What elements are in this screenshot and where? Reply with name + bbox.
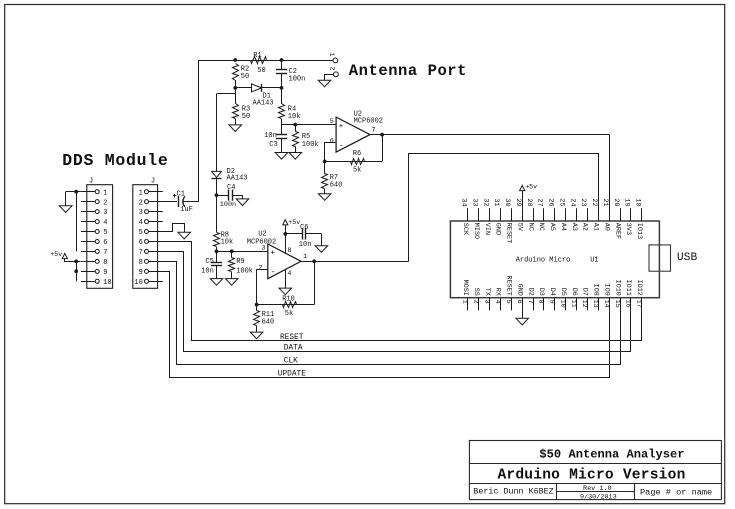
svg-text:IO12: IO12 [635,280,643,296]
wire U2B out to Arduino A1 [409,154,599,262]
resistor R2 ref label [241,65,249,73]
svg-text:3: 3 [482,300,490,304]
U1 bottom pin 17 (IO12) [635,280,644,311]
C2 value label [289,76,306,84]
connector J1 pin 5 [81,229,108,237]
svg-text:+: + [271,250,276,258]
wire net CLK from J2 pin8 [163,262,621,365]
svg-text:27: 27 [536,198,544,206]
antenna port pin 2 circle [334,72,339,77]
ground below U2B [279,288,292,295]
USB connector body [649,245,671,271]
wire U2A feedback down [382,135,384,162]
svg-text:IO8: IO8 [592,284,600,296]
svg-text:D4: D4 [548,288,556,296]
svg-text:10k: 10k [288,113,301,121]
U1 top pin 34 (SCK) [460,198,469,236]
svg-text:2: 2 [103,199,107,207]
D1 value label [253,100,274,108]
D1 ref label [263,93,271,101]
capacitor C3 [276,125,287,153]
junction D2-C4 [215,193,219,197]
svg-text:1: 1 [139,189,143,197]
connector J2 pin 1 [139,189,163,197]
connector J1 pin 4 [81,219,108,227]
junction R10-R11-pin2 [255,303,259,307]
svg-text:5: 5 [504,300,512,304]
svg-text:VIN: VIN [483,223,491,235]
connector J2 pin 9 [139,269,163,277]
svg-text:29: 29 [514,198,522,206]
svg-text:6: 6 [139,239,143,247]
svg-text:A1: A1 [592,223,600,231]
net label UPDATE [278,371,306,379]
svg-text:R1: R1 [253,52,261,60]
U1 bottom pin 5 (RESET) [504,275,513,310]
U1 top pin 26 (A5) [547,198,556,231]
svg-text:17: 17 [635,300,643,308]
svg-text:-: - [271,267,276,277]
svg-text:13: 13 [591,300,599,308]
svg-text:IO9: IO9 [602,284,610,296]
svg-text:50: 50 [257,67,265,75]
U1 top pin 30 (RESET) [503,198,512,243]
net label CLK [284,358,298,366]
ground below R9 [225,279,238,286]
svg-text:18: 18 [634,198,642,206]
svg-text:MISO: MISO [472,223,480,239]
wire C4 to ground [242,195,244,199]
wire C6 to ground [321,234,323,246]
ground below R5 [289,153,302,160]
D2 ref label [227,168,235,176]
U1 top pin 25 (A4) [557,198,566,231]
wire net RESET from J2 pin6 [163,242,642,341]
wire D2 branch jog [217,93,236,95]
wire net UPDATE from J2 pin9 [163,272,610,378]
DDS Module title [62,151,168,170]
resistor R10 value label [285,310,293,318]
svg-text:RX: RX [494,288,502,296]
wire J1 gnd bus pin1-pin7 [76,192,78,252]
svg-text:Rev 1.0: Rev 1.0 [583,485,612,493]
svg-text:-: - [339,141,344,151]
antenna port pin 2 number [329,67,336,71]
svg-text:5k: 5k [285,310,293,318]
svg-text:DATA: DATA [284,345,303,353]
svg-text:D5: D5 [559,288,567,296]
connector J2 pin 8 [139,259,163,267]
junction J1 pin1 gnd bus [74,190,78,194]
junction R9 tap [230,249,234,253]
svg-text:10: 10 [558,300,566,308]
wire top rail node A [199,60,333,62]
svg-text:TX: TX [483,288,491,296]
junction U2A out feedback [380,133,384,137]
junction R1-C2 [280,58,284,62]
resistor R8 [214,233,220,252]
junction D1-C2-R4 [280,86,284,90]
+5v symbol at U2B [283,220,288,225]
+5v symbol at U2B label [288,219,300,226]
svg-text:100k: 100k [302,141,319,149]
svg-text:2: 2 [471,300,479,304]
svg-text:8: 8 [287,247,291,255]
connector J2 pin 6 [139,239,163,247]
U1 bottom pin 8 (D3) [537,288,546,311]
ground below U1 [516,318,529,325]
wire feedback to U2B -in [257,270,268,305]
svg-text:31: 31 [492,198,500,206]
svg-text:640: 640 [330,181,343,189]
junction R5 tap [293,123,297,127]
U1 top pin 21 (A0) [601,198,610,231]
svg-text:7: 7 [103,249,107,257]
svg-text:+5v: +5v [525,183,537,190]
svg-text:2: 2 [139,199,143,207]
resistor R1 [251,57,267,64]
svg-text:640: 640 [262,318,275,326]
svg-text:GND: GND [494,223,502,235]
svg-text:Antenna Port: Antenna Port [349,62,467,80]
U1 bottom pin 11 (D6) [569,288,578,311]
svg-text:SCK: SCK [461,223,469,236]
resistor R6 ref label [353,150,361,158]
resistor R9 value label [236,267,253,275]
resistor R8 value label [221,239,234,247]
svg-text:C1: C1 [177,190,185,198]
svg-text:AREF: AREF [613,223,621,239]
svg-text:Beric Dunn K6BEZ: Beric Dunn K6BEZ [473,487,553,497]
wire U2B output [301,261,409,263]
resistor R6 value label [353,167,361,175]
author text [473,487,553,497]
resistor R7 ref label [330,174,338,182]
resistor R3 value label [242,113,250,121]
U1 top pin 24 (A3) [568,198,577,231]
C2 ref label [289,68,297,76]
C3 ref label [269,141,277,149]
svg-text:U2: U2 [258,230,266,238]
junction V+ to C6 [283,232,287,236]
svg-text:MCP6002: MCP6002 [354,118,383,126]
C1 ref label [177,190,185,198]
D2 value label [227,175,248,183]
capacitor C6 [285,228,321,239]
svg-text:MOSI: MOSI [461,280,469,296]
svg-text:10n: 10n [299,241,312,249]
U1 ref label [590,256,598,264]
rev text [583,485,612,493]
connector J1 pin 7 [81,249,108,257]
connector J2 ref label [151,178,155,186]
svg-text:A3: A3 [570,223,578,231]
connector J2 pin 4 [139,219,163,227]
svg-text:C3: C3 [269,141,277,149]
svg-text:3: 3 [139,209,143,217]
title text [539,447,684,461]
U1 top pin 18 (IO13) [634,198,643,239]
U1 top pin 19 (3V3) [623,198,632,235]
connector J2 pin 3 [139,209,163,217]
svg-text:UPDATE: UPDATE [278,371,306,379]
U1 bottom pin 15 (IO10) [613,280,622,311]
svg-text:A5: A5 [548,223,556,231]
svg-text:+: + [339,123,344,131]
U2B pin 8 number [287,247,291,255]
U1 bottom pin 12 (D7) [580,288,589,311]
resistor R2 value label [241,73,249,81]
+5v symbol at U1 label [525,183,537,190]
svg-text:6: 6 [330,137,334,145]
svg-text:5: 5 [330,118,334,126]
svg-text:IO13: IO13 [635,223,643,239]
svg-text:21: 21 [601,198,609,206]
U1 bottom pin 10 (D5) [558,288,567,311]
svg-text:33: 33 [470,198,478,206]
ground below R7 [318,194,331,201]
svg-text:RESET: RESET [505,223,513,243]
junction U2B out feedback [312,259,316,263]
svg-text:5: 5 [103,229,107,237]
U1 top pin 23 (A2) [579,198,588,231]
connector J2 pin 10 [134,279,162,287]
Antenna Port title [349,62,467,80]
svg-text:A0: A0 [602,223,610,231]
resistor R9 ref label [236,258,244,266]
ground below C3 [275,153,288,160]
junction R1-R2 [233,58,237,62]
svg-text:+5v: +5v [288,219,300,226]
U1 top pin 28 (NC) [525,198,534,231]
resistor R11 ref label [262,311,275,319]
svg-text:6: 6 [103,239,107,247]
wire feedback to U2A -in [325,143,337,162]
svg-text:R6: R6 [353,150,361,158]
wire D2 branch vertical [216,94,218,171]
svg-text:3V3: 3V3 [624,223,632,235]
U2A pin 6 number [330,137,334,145]
net label DATA [284,345,303,353]
svg-text:Page # or name: Page # or name [640,488,712,498]
U1 top pin 32 (VIN) [481,198,490,235]
capacitor C1 (polarized) [163,194,199,207]
connector J1 body [87,185,113,289]
U1 bottom pin 6 (GND) [515,284,524,311]
svg-text:10k: 10k [221,239,234,247]
connector J1 pin 1 [81,189,108,197]
svg-text:20: 20 [612,198,620,206]
resistor R1 ref label [253,52,261,60]
U2A ref label [354,111,362,119]
capacitor C2 [276,60,287,88]
svg-text:10: 10 [103,279,111,287]
junction R8-C5 [215,249,219,253]
+5v symbol at U1 [520,185,525,190]
junction R2-D1-R3 [233,86,237,90]
page text [640,488,712,498]
svg-text:50: 50 [242,113,250,121]
svg-text:$50 Antenna Analyser: $50 Antenna Analyser [539,447,684,461]
svg-text:A2: A2 [581,223,589,231]
svg-text:32: 32 [481,198,489,206]
C4 ref label [227,184,235,192]
svg-text:10n: 10n [264,132,277,140]
svg-text:7: 7 [139,249,143,257]
ground right of C4 [236,199,249,206]
wire J2 pin2 to C1 [163,201,177,203]
svg-text:16: 16 [624,300,632,308]
svg-text:100n: 100n [289,76,306,84]
resistor R10 ref label [282,296,295,304]
svg-text:15: 15 [613,300,621,308]
svg-text:28: 28 [525,198,533,206]
svg-text:6: 6 [515,300,523,304]
svg-text:9: 9 [139,269,143,277]
svg-text:AA143: AA143 [253,100,274,108]
svg-text:J: J [89,178,93,186]
U1 bottom pin 13 (IO8) [591,284,600,311]
wire U2B feedback down [314,261,316,304]
wire R8 to U2B +in [217,251,269,253]
svg-text:14: 14 [602,300,610,308]
U1 bottom pin 14 (IO9) [602,284,611,311]
C5 value label [201,267,214,275]
U1 bottom pin 7 (D2) [526,288,535,311]
USB label [677,252,698,264]
U1 top pin 20 (AREF) [612,198,621,239]
wire R4 to op-amp U2A +in [282,124,337,126]
svg-text:7: 7 [526,300,534,304]
svg-text:DDS Module: DDS Module [62,151,168,170]
U2B pin 3 number [261,245,265,253]
svg-text:IO10: IO10 [613,280,621,296]
date text [580,494,617,502]
svg-text:22: 22 [590,198,598,206]
svg-text:100n: 100n [220,201,236,209]
U2B pin 1 number [303,253,307,261]
diode D2 [212,171,222,178]
resistor R7 value label [330,181,343,189]
capacitor C4 [217,190,243,201]
connector J1 ref label [89,178,93,186]
junction +5v pin9 [74,269,78,273]
C3 value label [264,132,277,140]
U1 name label [516,256,571,264]
wire U2B V+ pin 8 [285,225,287,253]
ground below C6 [315,246,328,253]
resistor R3 [233,88,239,125]
wire +5v bus pin8-pin10 [76,261,78,281]
wire J1 pin1 to ground [66,192,81,206]
connector J1 pin 2 [81,199,108,207]
U1 top pin 22 (A1) [590,198,599,231]
U1 bottom pin 16 (IO11) [624,280,633,311]
svg-text:J: J [151,178,155,186]
connector J2 pin 2 [139,199,163,207]
svg-text:12: 12 [580,300,588,308]
U1 bottom pin 1 (MOSI) [461,280,470,311]
svg-text:23: 23 [579,198,587,206]
svg-text:A4: A4 [559,223,567,231]
svg-text:IO11: IO11 [624,280,632,296]
svg-text:11: 11 [569,300,577,308]
svg-text:Arduino Micro Version: Arduino Micro Version [497,468,685,484]
svg-text:RESET: RESET [505,275,513,295]
resistor R4 value label [288,113,301,121]
svg-text:1: 1 [328,53,335,57]
svg-text:D7: D7 [581,288,589,296]
U1 bottom pin 2 (SS) [471,288,480,311]
junction R6-R7-pin6 [323,160,327,164]
svg-text:D2: D2 [526,288,534,296]
C6 ref label [300,224,308,232]
svg-text:SS: SS [472,288,480,296]
svg-text:D3: D3 [537,288,545,296]
connector J1 pin 3 [81,209,108,217]
svg-text:USB: USB [677,252,698,264]
U2B pin 4 number [287,270,291,278]
wire U1 5V pin to +5v [522,191,524,209]
antenna port pin 1 circle [333,58,338,63]
resistor R3 ref label [242,105,250,113]
resistor R9 [229,251,235,278]
svg-text:1: 1 [461,300,469,304]
C6 value label [299,241,312,249]
junction +5v pin8 [74,260,78,264]
U1 top pin 31 (GND) [492,198,501,235]
ground below R11 [250,332,263,339]
svg-text:100k: 100k [236,267,253,275]
svg-text:30: 30 [503,198,511,206]
svg-text:R10: R10 [282,296,295,304]
connector J1 pin 6 [81,239,108,247]
C5 ref label [205,258,213,266]
svg-text:2: 2 [329,67,336,71]
svg-text:1: 1 [103,189,107,197]
svg-text:C4: C4 [227,184,235,192]
capacitor C5 [211,251,222,278]
svg-text:8: 8 [537,300,545,304]
svg-text:10n: 10n [201,267,214,275]
title block frame [469,441,721,500]
ground below J1 pin 1 [59,206,72,213]
wire U2A out to Arduino A0 [609,135,611,209]
wire U1 GND pin to ground [522,310,524,318]
connector J1 pin 8 [81,259,108,267]
svg-text:3: 3 [103,209,107,217]
svg-text:5: 5 [139,229,143,237]
svg-text:CLK: CLK [284,358,298,366]
svg-text:4: 4 [139,219,143,227]
wire D2 to R8 [216,178,218,232]
U2A pin 7 number [372,126,376,134]
connector J2 pin 5 [139,229,163,237]
diode D1 [235,84,281,92]
svg-text:U1: U1 [590,256,598,264]
svg-text:9/30/2013: 9/30/2013 [580,494,617,502]
svg-text:1uF: 1uF [180,206,193,214]
U2A value label [354,118,383,126]
resistor R11 [254,305,260,333]
C4 value label [220,201,236,209]
U2B value label [247,239,276,247]
svg-text:GND: GND [515,284,523,296]
wire net DATA from J2 pin7 [163,252,631,352]
U1 bottom pin 9 (D4) [548,288,557,311]
U1 top pin 27 (NC) [536,198,545,231]
ground at J2 pin 5 [178,232,191,239]
